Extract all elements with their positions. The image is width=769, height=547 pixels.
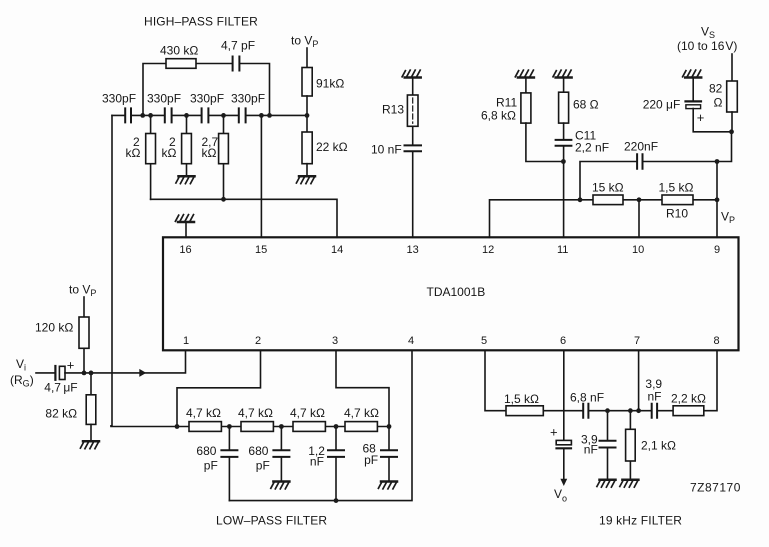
node dot 220nF riser on Vp row — [578, 197, 583, 202]
ground above R13 (hatches up) — [402, 70, 421, 77]
wire LPF chain y=426.5 — [111, 426, 389, 428]
svg-text:(10 to 16 V): (10 to 16 V) — [677, 39, 737, 53]
svg-text:2,2 kΩ: 2,2 kΩ — [671, 392, 706, 406]
capacitor 4,7 uF electrolytic input — [54, 366, 56, 380]
wire 82k to ground — [90, 424, 92, 441]
arrow input toward pin 1 — [139, 369, 146, 377]
wire pin 6 down through row to output cap — [563, 350, 565, 440]
svg-text:+: + — [697, 110, 705, 125]
resistor 4,7 kOhm #3 — [293, 422, 325, 432]
svg-text:220nF: 220nF — [624, 140, 658, 154]
svg-text:nF: nF — [584, 443, 598, 457]
wire 3,9nF shunt from row — [607, 411, 609, 480]
ground at pin 16 (hatches up) — [185, 222, 187, 237]
wire to Vp to 120k — [83, 297, 85, 317]
capacitor 220 uF output electrolytic — [556, 440, 571, 444]
node dot chain/loop-left — [140, 113, 145, 118]
svg-text:1,5 kΩ: 1,5 kΩ — [659, 181, 694, 195]
svg-text:LOW–PASS FILTER: LOW–PASS FILTER — [216, 514, 327, 528]
capacitor 330 pF #3 — [202, 108, 209, 122]
svg-text:kΩ: kΩ — [202, 146, 217, 160]
svg-text:330pF: 330pF — [102, 92, 136, 106]
wire output cap to Vo arrow — [563, 449, 565, 479]
resistor 82 kOhm — [86, 395, 96, 425]
capacitor 68 pF with stub to ground — [388, 427, 390, 482]
svg-text:7Z87170: 7Z87170 — [690, 481, 741, 495]
svg-text:+: + — [67, 358, 75, 373]
wire 82 Ohm to corner node — [731, 112, 733, 132]
resistor 1,5 kOhm (19kHz) — [506, 406, 543, 416]
svg-text:10: 10 — [632, 244, 644, 256]
wire pin 2 down-left to LPF chain — [177, 350, 261, 426]
svg-text:8: 8 — [714, 335, 720, 347]
wire ground to R13 — [412, 78, 414, 96]
svg-text:1,5 kΩ: 1,5 kΩ — [504, 392, 539, 406]
ground below 3,9nF shunt — [597, 480, 616, 487]
svg-text:5: 5 — [481, 335, 487, 347]
svg-text:330pF: 330pF — [190, 92, 224, 106]
wire 6,8nF to 3,9nF series — [589, 410, 650, 412]
wire HPF feedback loop top (430k / 4,7pF branch) — [143, 64, 270, 116]
svg-text:15: 15 — [255, 244, 267, 256]
wire pin 9 / Vp vertical — [716, 162, 718, 238]
capacitor 3,9 nF series — [652, 404, 657, 418]
svg-text:1: 1 — [183, 335, 189, 347]
resistor 2,7 kOhm with stubs — [223, 115, 225, 199]
svg-text:HIGH–PASS FILTER: HIGH–PASS FILTER — [144, 15, 258, 29]
wire 120k to input node — [83, 348, 85, 373]
resistor 430 kOhm — [166, 59, 196, 69]
wire 2,1k from row — [629, 411, 631, 480]
capacitor 4,7 pF — [233, 57, 240, 71]
wire pin 7 stub — [638, 350, 640, 410]
node dot chain/2k#2 — [184, 113, 189, 118]
svg-text:11: 11 — [557, 244, 568, 256]
resistor 68 Ohm — [559, 92, 569, 123]
node dot R11/C11 at pin11 line — [561, 159, 566, 164]
wire ground to 220uF — [692, 78, 694, 101]
wire input node to pin 1 with junctions — [65, 350, 186, 373]
svg-text:120 kΩ: 120 kΩ — [35, 321, 73, 335]
wire 220nF branch riser x=580 — [580, 162, 636, 200]
capacitor 3,9 nF shunt — [600, 441, 616, 448]
capacitor 10 nF — [405, 145, 422, 151]
ground below 68 pF — [378, 482, 397, 489]
svg-text:+: + — [550, 425, 558, 440]
wire R13 to 10nF — [412, 126, 414, 144]
svg-text:pF: pF — [204, 459, 218, 473]
capacitor C11 2,2 nF — [556, 140, 572, 146]
ground below 82 kOhm — [80, 441, 99, 448]
wire 22k to ground — [306, 164, 308, 177]
wire 91k to chain node — [306, 96, 308, 132]
svg-text:680: 680 — [196, 444, 216, 458]
svg-text:4,7 μF: 4,7 μF — [44, 381, 77, 395]
svg-text:9: 9 — [714, 244, 720, 256]
svg-text:2: 2 — [255, 335, 261, 347]
svg-text:680: 680 — [248, 444, 268, 458]
ground above 68 Ohm (hatches up) — [553, 70, 572, 77]
wire pin 10 stub — [638, 200, 640, 238]
svg-text:220 μF: 220 μF — [643, 98, 681, 112]
node dot chain R2/R3 — [279, 424, 284, 429]
svg-text:2,1 kΩ: 2,1 kΩ — [641, 439, 676, 453]
svg-text:pF: pF — [256, 459, 270, 473]
svg-text:68 Ω: 68 Ω — [573, 98, 599, 112]
svg-text:4,7 kΩ: 4,7 kΩ — [344, 406, 379, 420]
node dot bus/1,2nF — [334, 498, 339, 503]
ground below 2 kOhm #2 — [176, 176, 195, 183]
svg-text:16: 16 — [179, 244, 191, 256]
wire ground to 68 Ohm — [563, 78, 565, 93]
capacitor 220 nF — [637, 154, 642, 169]
svg-text:7: 7 — [634, 335, 640, 347]
wire to Vp feeding 91k — [306, 48, 308, 68]
wire HPF capacitor chain y=115.4 — [112, 114, 307, 116]
svg-text:2,2 nF: 2,2 nF — [575, 141, 609, 155]
svg-text:14: 14 — [331, 244, 343, 256]
svg-text:nF: nF — [310, 455, 324, 469]
svg-text:4,7 kΩ: 4,7 kΩ — [290, 406, 325, 420]
ground above R11 (hatches up) — [515, 70, 534, 77]
resistor 120 kOhm — [79, 317, 89, 348]
resistor 22 kOhm — [302, 132, 312, 164]
capacitor 680 pF #2 with stub to ground — [280, 427, 282, 482]
svg-text:(RG): (RG) — [10, 373, 34, 389]
wire HPF lower return y=199.3 to pin 14 — [151, 199, 337, 237]
wire left column from chain down to LPF — [111, 115, 112, 425]
svg-text:6: 6 — [560, 335, 566, 347]
node dot chain/pin2 — [175, 424, 180, 429]
svg-text:Ω: Ω — [714, 96, 723, 110]
svg-text:330pF: 330pF — [231, 92, 265, 106]
wire ground to R11 — [525, 78, 527, 93]
node dot chain/loop-right — [267, 113, 272, 118]
node dot 220nF wire / pin 9 — [715, 159, 720, 164]
wire 3,9nF to 2,2k — [658, 410, 673, 412]
svg-text:R11: R11 — [496, 96, 517, 110]
capacitor 330 pF #1 — [125, 108, 131, 122]
svg-text:R10: R10 — [666, 207, 688, 221]
wire 68 Ohm to C11 — [563, 123, 565, 139]
ground below 2,1 kOhm — [620, 480, 639, 487]
svg-text:4: 4 — [408, 335, 414, 347]
svg-text:82: 82 — [709, 82, 723, 96]
ground below 22 kOhm — [296, 176, 315, 183]
resistor 91 kOhm — [302, 68, 312, 97]
node dot row/2,1k — [628, 408, 633, 413]
capacitor 6,8 nF — [583, 404, 588, 418]
wire R11 down and right to pin11 node — [526, 123, 564, 161]
wire 220uF to corner node — [693, 109, 731, 132]
svg-text:4,7 pF: 4,7 pF — [221, 39, 255, 53]
svg-text:10 nF: 10 nF — [371, 143, 402, 157]
resistor 2,1 kOhm — [626, 429, 636, 461]
svg-text:22 kΩ: 22 kΩ — [316, 140, 348, 154]
capacitor 220 uF electrolytic — [686, 100, 702, 102]
wire chain to pin 15 — [260, 115, 262, 237]
resistor 2 kOhm #1 with stubs — [150, 115, 152, 199]
svg-text:kΩ: kΩ — [162, 146, 177, 160]
wire 220nF right to Vs corner — [644, 132, 732, 162]
svg-text:3: 3 — [332, 335, 338, 347]
svg-text:91kΩ: 91kΩ — [316, 77, 344, 91]
node dot input/120k — [82, 371, 87, 376]
capacitor 330 pF #2 — [165, 108, 172, 122]
svg-text:15 kΩ: 15 kΩ — [592, 181, 624, 195]
node dot return wire / 2,7k — [221, 197, 226, 202]
resistor R13 (dashed interior) — [407, 95, 418, 126]
wire LPF bottom bus to pin 4 — [229, 350, 412, 500]
wire Vs supply down to 82 Ohm — [731, 54, 733, 81]
node dot chain R1/R2 — [227, 424, 232, 429]
wire C11 to pin 11 — [563, 146, 565, 237]
wire 2,2k up to pin 8 — [704, 350, 717, 410]
svg-text:6,8 kΩ: 6,8 kΩ — [481, 109, 516, 123]
node dot chain/pin15 — [259, 113, 264, 118]
wire 1,5k to 6,8nF (crosses pin 6 line) — [543, 410, 582, 412]
arrow Vo output — [560, 479, 567, 486]
wire pin 3 down-right to chain end — [336, 350, 389, 426]
resistor R10 1,5 kOhm — [662, 195, 693, 205]
capacitor 680 pF #1 with stubs to bus — [228, 427, 230, 501]
node dot chain/2k#1 — [148, 113, 153, 118]
node dot input/82k — [89, 371, 94, 376]
svg-text:R13: R13 — [382, 103, 404, 117]
wire pin 5 down to 19kHz row — [485, 350, 506, 410]
svg-text:430 kΩ: 430 kΩ — [160, 44, 198, 58]
resistor 2,2 kOhm — [673, 406, 704, 416]
resistor 4,7 kOhm #4 — [345, 422, 377, 432]
node dot row/3,9nF shunt — [605, 408, 610, 413]
wire input Vi to coupling cap — [36, 372, 54, 374]
node dot 82Ohm-220uF junction — [729, 129, 734, 134]
capacitor 330 pF #4 — [239, 108, 246, 122]
node dot Vp row / pin 9 — [715, 197, 720, 202]
resistor 4,7 kOhm #2 — [241, 422, 273, 432]
svg-text:4,7 kΩ: 4,7 kΩ — [186, 406, 221, 420]
wire input node to 82k — [90, 373, 92, 395]
resistor R11 6,8 kOhm — [521, 93, 531, 123]
svg-text:6,8 nF: 6,8 nF — [570, 391, 604, 405]
svg-text:330pF: 330pF — [147, 92, 181, 106]
capacitor 1,2 nF with stubs to bus — [335, 427, 337, 501]
node dot chain/91k-22k — [305, 113, 310, 118]
svg-text:nF: nF — [648, 390, 662, 404]
svg-text:pF: pF — [364, 453, 378, 467]
ground below 680 pF #2 — [271, 482, 290, 489]
wire 10nF to pin 13 — [412, 152, 414, 237]
node dot row/pin 7 — [636, 408, 641, 413]
node dot chain end/pin3 — [387, 424, 392, 429]
svg-text:13: 13 — [407, 244, 419, 256]
resistor 82 Ohm — [727, 81, 738, 112]
IC U1 TDA1001B body — [163, 237, 739, 350]
resistor 4,7 kOhm #1 — [189, 422, 221, 432]
resistor 2 kOhm #2 with stub — [186, 115, 188, 176]
ground above 220uF (hatches up) — [683, 70, 702, 77]
svg-text:82 kΩ: 82 kΩ — [45, 407, 77, 421]
svg-text:12: 12 — [482, 244, 494, 256]
svg-text:19 kHz FILTER: 19 kHz FILTER — [599, 514, 682, 528]
wire Vp row y=199.8 from pin 12 — [490, 200, 718, 238]
svg-text:kΩ: kΩ — [126, 146, 141, 160]
resistor 15 kOhm — [593, 195, 623, 205]
svg-text:4,7 kΩ: 4,7 kΩ — [238, 406, 273, 420]
node dot chain/2,7k — [221, 113, 226, 118]
svg-text:TDA1001B: TDA1001B — [427, 285, 486, 299]
node dot 15k/R10/pin10 — [637, 197, 642, 202]
node dot chain R3/R4 — [334, 424, 339, 429]
